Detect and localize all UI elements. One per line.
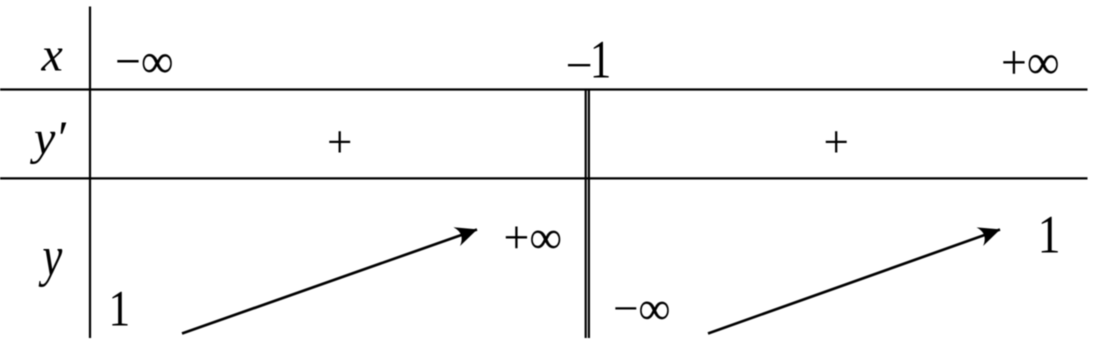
svg-text:+: + xyxy=(327,117,352,167)
svg-text:+: + xyxy=(824,117,849,167)
svg-text:y: y xyxy=(38,225,63,287)
svg-text:1: 1 xyxy=(108,281,130,337)
svg-text:−∞: −∞ xyxy=(115,34,174,89)
svg-text:+∞: +∞ xyxy=(1001,35,1060,90)
double vertical line at x = -1 (right bar) xyxy=(588,89,590,338)
increasing arrow on second interval xyxy=(708,230,1000,334)
svg-text:−: − xyxy=(566,39,593,92)
double vertical line at x = -1 (left bar) xyxy=(585,89,587,338)
svg-text:x: x xyxy=(41,28,63,81)
increasing arrow on first interval xyxy=(182,230,477,334)
horizontal rule between y' row and y row xyxy=(0,177,1088,179)
svg-text:−∞: −∞ xyxy=(613,283,671,335)
svg-text:1: 1 xyxy=(590,31,611,90)
svg-text:+∞: +∞ xyxy=(504,212,563,264)
horizontal rule between x row and y' row xyxy=(0,88,1088,90)
header column separator vertical line xyxy=(89,7,91,339)
svg-text:1: 1 xyxy=(1038,204,1061,264)
svg-text:y′: y′ xyxy=(29,112,67,165)
